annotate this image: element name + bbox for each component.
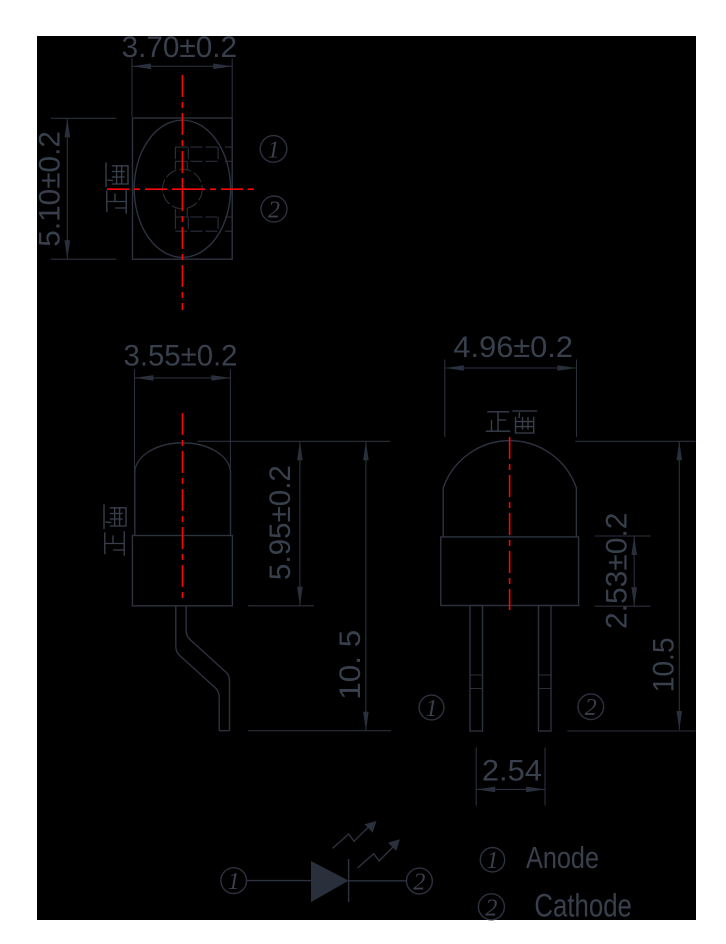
svg-text:3.70±0.2: 3.70±0.2 [122,31,237,64]
svg-text:3.55±0.2: 3.55±0.2 [124,339,238,372]
svg-text:1: 1 [228,869,240,895]
svg-text:10.5: 10.5 [647,637,680,692]
svg-text:2: 2 [413,870,425,896]
svg-text:2: 2 [585,695,597,721]
svg-text:5.95±0.2: 5.95±0.2 [264,465,297,580]
svg-text:2.53±0.2: 2.53±0.2 [601,513,634,630]
svg-text:1: 1 [487,848,499,874]
svg-text:1: 1 [268,138,280,164]
svg-text:4.96±0.2: 4.96±0.2 [453,331,573,364]
svg-text:Cathode: Cathode [534,888,632,924]
svg-text:Anode: Anode [526,840,599,875]
svg-text:10. 5: 10. 5 [334,630,367,700]
svg-text:5.10±0.2: 5.10±0.2 [34,131,67,247]
svg-text:1: 1 [426,696,438,722]
svg-text:2.54: 2.54 [482,755,542,788]
svg-text:2: 2 [268,198,280,224]
svg-text:2: 2 [485,896,497,922]
